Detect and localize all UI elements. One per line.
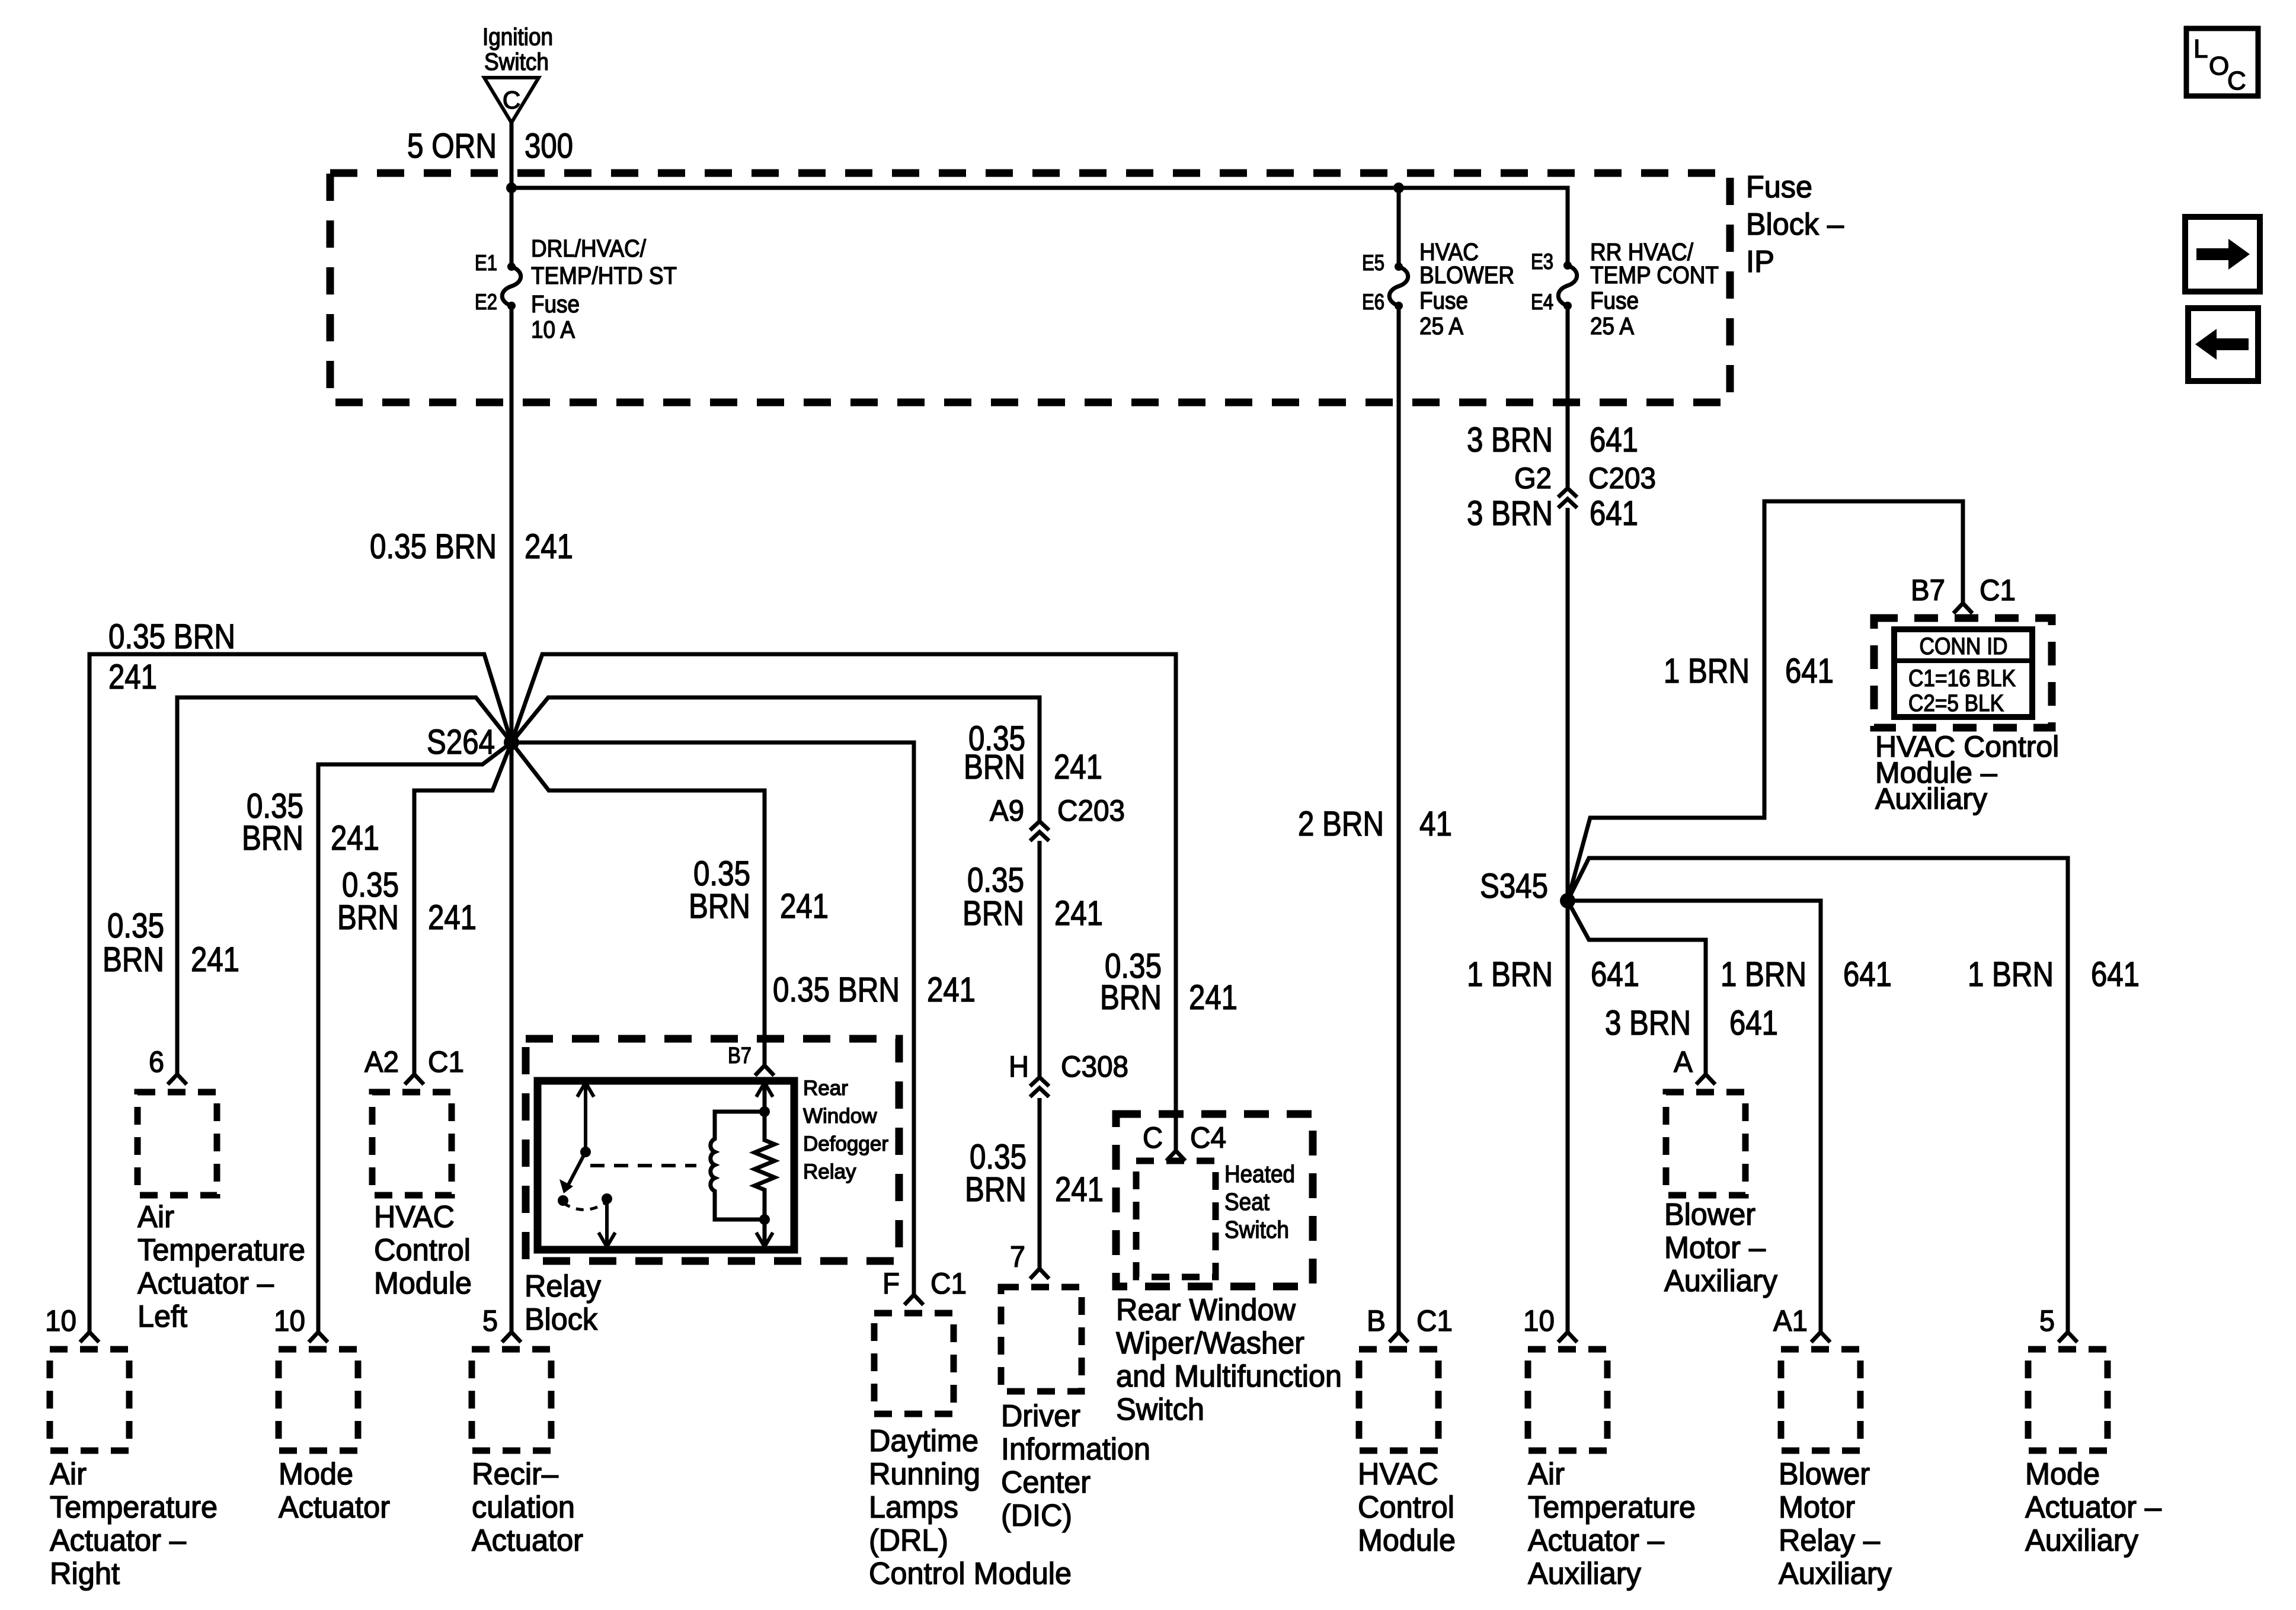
relay block dashed box [525,1039,899,1337]
wire label below H [965,1138,1104,1209]
svg-text:Fuse: Fuse [531,290,580,318]
svg-text:Switch: Switch [1116,1393,1204,1427]
svg-text:641: 641 [2091,955,2140,994]
svg-text:641: 641 [1590,421,1638,459]
svg-text:B7: B7 [728,1044,752,1068]
svg-text:641: 641 [1729,1004,1778,1042]
svg-text:241: 241 [927,971,976,1009]
svg-text:BRN: BRN [1100,978,1162,1017]
svg-text:3 BRN: 3 BRN [1467,421,1553,459]
svg-text:Relay: Relay [803,1160,856,1183]
svg-text:BRN: BRN [242,819,303,857]
svg-text:(DIC): (DIC) [1001,1499,1072,1533]
svg-text:Defogger: Defogger [803,1132,888,1156]
relay coil link dashed [590,1164,696,1167]
connector G2 C203 [1514,462,1656,508]
svg-text:C4: C4 [1190,1121,1226,1154]
svg-text:C1: C1 [1416,1304,1453,1337]
fuse DRL/HVAC/TEMP/HTD ST 10A (E1-E2) [475,235,677,343]
svg-text:B: B [1367,1304,1386,1337]
wire 3 BRN 641 fuse E4 to connector G2 C203 [1467,306,1638,488]
svg-text:5 ORN: 5 ORN [407,127,497,165]
svg-text:Wiper/Washer: Wiper/Washer [1116,1326,1304,1361]
wire S345 to blower motor relay auxiliary [1568,901,1892,1332]
svg-text:Mode: Mode [2025,1457,2100,1491]
svg-text:Fuse: Fuse [1746,170,1812,204]
svg-text:641: 641 [1591,955,1639,994]
svg-text:BRN: BRN [962,894,1024,933]
svg-text:2 BRN: 2 BRN [1298,805,1384,843]
svg-text:1 BRN: 1 BRN [1664,652,1750,690]
svg-text:Actuator –: Actuator – [137,1266,274,1301]
svg-text:0.35 BRN: 0.35 BRN [370,527,497,566]
left arrow nav box [2188,308,2258,381]
svg-text:C2=5 BLK: C2=5 BLK [1908,690,2004,716]
svg-text:F: F [882,1267,900,1300]
svg-text:BRN: BRN [964,748,1025,786]
wire S264 to DIC via A9 C203 and H C308 [511,697,1102,1269]
svg-text:H: H [1009,1050,1029,1083]
svg-text:E4: E4 [1531,290,1553,314]
svg-text:Rear: Rear [803,1077,848,1100]
svg-text:Switch: Switch [1224,1216,1289,1243]
svg-text:Recir–: Recir– [472,1457,558,1491]
svg-text:Switch: Switch [484,48,549,75]
air temperature actuator auxiliary (pin 10) [1523,1304,1696,1591]
svg-text:Window: Window [803,1105,877,1128]
wire S264 to mode actuator [242,742,511,1332]
svg-text:Control: Control [1358,1490,1454,1525]
daytime running lamps DRL control module (pin F, C1) [869,1267,1072,1591]
ignition switch connector C [482,23,553,123]
svg-text:Block: Block [525,1302,598,1337]
svg-text:6: 6 [149,1045,164,1078]
svg-text:A9: A9 [990,794,1024,827]
svg-text:Daytime: Daytime [869,1424,978,1458]
svg-text:C308: C308 [1061,1050,1128,1083]
svg-text:E6: E6 [1362,290,1384,314]
svg-text:641: 641 [1590,494,1638,533]
svg-text:S264: S264 [427,723,495,761]
relay resistor [754,1081,775,1250]
svg-text:E1: E1 [475,251,497,275]
svg-text:0.35: 0.35 [107,907,164,945]
svg-text:0.35 BRN: 0.35 BRN [108,617,235,656]
svg-text:Auxiliary: Auxiliary [1528,1557,1641,1591]
svg-text:BRN: BRN [689,887,750,926]
svg-text:HVAC: HVAC [374,1200,455,1234]
svg-text:Heated: Heated [1224,1160,1295,1188]
svg-text:C1: C1 [428,1045,464,1078]
wire S264 to rear window defogger relay B7 [511,742,829,1065]
relay coil [711,1112,765,1219]
svg-text:641: 641 [1785,652,1834,690]
svg-text:A: A [1674,1045,1693,1078]
heated seat switch (pin C, C4) [1136,1121,1295,1277]
svg-text:C1=16 BLK: C1=16 BLK [1908,665,2016,692]
svg-text:Air: Air [137,1200,174,1234]
svg-text:Auxiliary: Auxiliary [1779,1557,1892,1591]
svg-text:G2: G2 [1514,462,1552,495]
svg-text:CONN ID: CONN ID [1920,633,2008,660]
wire 2 BRN 41 fuse E6 to HVAC control module B [1298,306,1452,1332]
svg-text:241: 241 [1054,748,1102,786]
svg-text:C1: C1 [1980,574,2016,607]
svg-text:300: 300 [525,127,573,165]
svg-text:Block –: Block – [1746,207,1844,242]
fuse block IP dashed box [330,170,1844,402]
junction node at E5 feed [1393,183,1404,193]
svg-text:(DRL): (DRL) [869,1523,948,1558]
svg-text:Actuator –: Actuator – [1528,1523,1664,1558]
splice S345 [1480,867,1575,908]
svg-text:Mode: Mode [279,1457,353,1491]
splice S264 [427,723,519,761]
svg-text:Seat: Seat [1224,1188,1270,1215]
HVAC control module auxiliary label [1875,730,2059,815]
svg-text:Relay –: Relay – [1779,1523,1880,1558]
wire S264 down to recirculation actuator [510,742,514,1332]
svg-text:1 BRN: 1 BRN [1467,955,1553,994]
svg-text:BRN: BRN [337,898,399,937]
svg-text:25 A: 25 A [1590,312,1635,340]
svg-text:Driver: Driver [1001,1399,1080,1433]
wire S264 to air temperature actuator right [89,617,511,1332]
svg-text:641: 641 [1843,955,1892,994]
svg-text:41: 41 [1419,805,1452,843]
wire S264 to air temperature actuator left [103,697,511,1074]
svg-text:L: L [2193,34,2208,63]
svg-text:IP: IP [1746,245,1774,279]
wire S345 to blower motor auxiliary [1568,901,1778,1074]
relay switch contact arm [558,1081,615,1247]
svg-text:S345: S345 [1480,867,1548,905]
svg-text:Control: Control [374,1233,471,1267]
svg-text:Ignition: Ignition [482,23,553,50]
wire S345 down to air temperature actuator auxiliary [1467,901,1639,1332]
svg-text:Information: Information [1001,1432,1150,1467]
svg-text:241: 241 [428,898,477,937]
svg-text:Fuse: Fuse [1419,287,1468,314]
svg-text:TEMP CONT: TEMP CONT [1590,261,1719,289]
svg-text:0.35 BRN: 0.35 BRN [773,971,900,1009]
svg-text:Blower: Blower [1664,1198,1755,1232]
svg-text:C: C [1143,1121,1163,1154]
rear window wiper/washer and multifunction switch dashed box [1116,1114,1342,1427]
svg-text:C203: C203 [1588,462,1656,495]
svg-text:10: 10 [274,1304,305,1337]
air temperature actuator right (pin 10) [45,1304,218,1591]
svg-text:241: 241 [1054,894,1103,933]
junction node at E1 feed [506,183,517,193]
wire label below A9 [962,861,1103,933]
svg-text:5: 5 [482,1304,498,1337]
svg-text:3 BRN: 3 BRN [1467,494,1553,533]
svg-text:Temperature: Temperature [137,1233,305,1267]
recirculation actuator (pin 5) [472,1304,583,1558]
svg-text:Right: Right [50,1557,120,1591]
svg-text:A1: A1 [1773,1304,1808,1337]
svg-text:Temperature: Temperature [1528,1490,1696,1525]
connector H C308 [1009,1050,1128,1097]
air temperature actuator left (pin 6) [137,1045,305,1334]
svg-text:BRN: BRN [965,1170,1027,1209]
svg-text:E2: E2 [475,290,497,314]
bus wire inside fuse block [511,188,1568,267]
svg-text:BRN: BRN [103,940,164,979]
svg-text:241: 241 [108,658,157,696]
pin B7 of defogger relay [728,1044,774,1076]
fuse RR HVAC/TEMP CONT 25A (E3-E4) [1531,238,1719,340]
HVAC control module (pin B, C1) bottom [1358,1304,1456,1558]
driver information center DIC (pin 7) [1001,1240,1150,1533]
svg-text:E3: E3 [1531,249,1553,274]
LOC reference box [2186,28,2258,96]
svg-text:Module: Module [1358,1523,1456,1558]
svg-text:HVAC: HVAC [1358,1457,1438,1491]
svg-text:Auxiliary: Auxiliary [1875,782,1987,815]
svg-text:Air: Air [1528,1457,1565,1491]
svg-text:Auxiliary: Auxiliary [1664,1264,1777,1298]
svg-text:C: C [2227,66,2246,95]
blower motor relay auxiliary (pin A1) [1773,1304,1892,1591]
svg-text:DRL/HVAC/: DRL/HVAC/ [531,235,647,262]
svg-text:Actuator –: Actuator – [2025,1490,2161,1525]
svg-text:A2: A2 [364,1045,399,1078]
svg-text:Blower: Blower [1779,1457,1870,1491]
svg-text:Relay: Relay [525,1269,601,1304]
wire S264 to DRL control module F [511,742,976,1295]
svg-text:10: 10 [1523,1304,1555,1337]
svg-text:241: 241 [780,887,829,926]
svg-text:Motor: Motor [1779,1490,1855,1525]
svg-text:Left: Left [137,1299,188,1334]
svg-text:Running: Running [869,1457,980,1491]
svg-text:TEMP/HTD ST: TEMP/HTD ST [531,262,677,289]
svg-text:culation: culation [472,1490,575,1525]
wire S345 to mode actuator auxiliary [1568,858,2140,1332]
svg-text:BLOWER: BLOWER [1419,261,1514,289]
svg-text:Motor –: Motor – [1664,1231,1766,1265]
svg-text:Actuator: Actuator [279,1490,390,1525]
svg-text:Temperature: Temperature [50,1490,218,1525]
svg-text:Fuse: Fuse [1590,287,1639,314]
svg-text:and Multifunction: and Multifunction [1116,1359,1342,1394]
svg-text:Air: Air [50,1457,87,1491]
connector A9 C203 [990,794,1125,841]
wire S345 to HVAC control module auxiliary B7 [1568,501,1963,901]
svg-text:C1: C1 [930,1267,967,1300]
svg-text:1 BRN: 1 BRN [1968,955,2054,994]
svg-text:Rear Window: Rear Window [1116,1293,1296,1327]
svg-text:25 A: 25 A [1419,312,1464,340]
svg-text:C203: C203 [1057,794,1125,827]
mode actuator auxiliary (pin 5) [2025,1304,2161,1558]
svg-text:241: 241 [331,819,379,857]
svg-text:7: 7 [1010,1240,1025,1273]
svg-text:B7: B7 [1911,574,1945,607]
svg-text:O: O [2209,52,2229,81]
rear window defogger relay box [538,1077,888,1250]
wire 0.35 BRN 241 fuse E2 to splice S264 [370,308,573,742]
HVAC control module (pin A2, C1) [364,1045,472,1301]
svg-text:E5: E5 [1362,251,1384,275]
svg-text:10 A: 10 A [531,316,575,343]
HVAC control module auxiliary (pin B7, C1) [1874,574,2052,728]
mode actuator (pin 10) [274,1304,390,1525]
wire 5 ORN 300 from ignition switch [407,123,573,267]
svg-text:241: 241 [525,527,573,566]
fuse HVAC BLOWER 25A (E5-E6) [1362,238,1514,340]
svg-text:10: 10 [45,1304,76,1337]
CONN ID table [1894,629,2032,717]
svg-text:241: 241 [191,940,239,979]
svg-text:Actuator: Actuator [472,1523,583,1558]
svg-text:5: 5 [2039,1304,2055,1337]
svg-text:Lamps: Lamps [869,1490,958,1525]
svg-text:Auxiliary: Auxiliary [2025,1523,2138,1558]
svg-text:3 BRN: 3 BRN [1605,1004,1691,1042]
svg-text:Module: Module [374,1266,472,1301]
svg-text:Actuator –: Actuator – [50,1523,186,1558]
svg-text:Control Module: Control Module [869,1557,1072,1591]
svg-text:241: 241 [1189,978,1237,1017]
wire S264 to heated seat switch C [511,654,1237,1151]
svg-text:Center: Center [1001,1465,1091,1500]
right arrow nav box [2185,217,2260,292]
blower motor auxiliary (pin A) [1664,1045,1777,1298]
wire 3 BRN 641 connector to splice S345 [1467,494,1638,901]
svg-text:241: 241 [1055,1170,1104,1209]
wire S264 to HVAC control module A2 [337,742,511,1074]
svg-text:1 BRN: 1 BRN [1721,955,1806,994]
svg-text:C: C [503,86,520,114]
